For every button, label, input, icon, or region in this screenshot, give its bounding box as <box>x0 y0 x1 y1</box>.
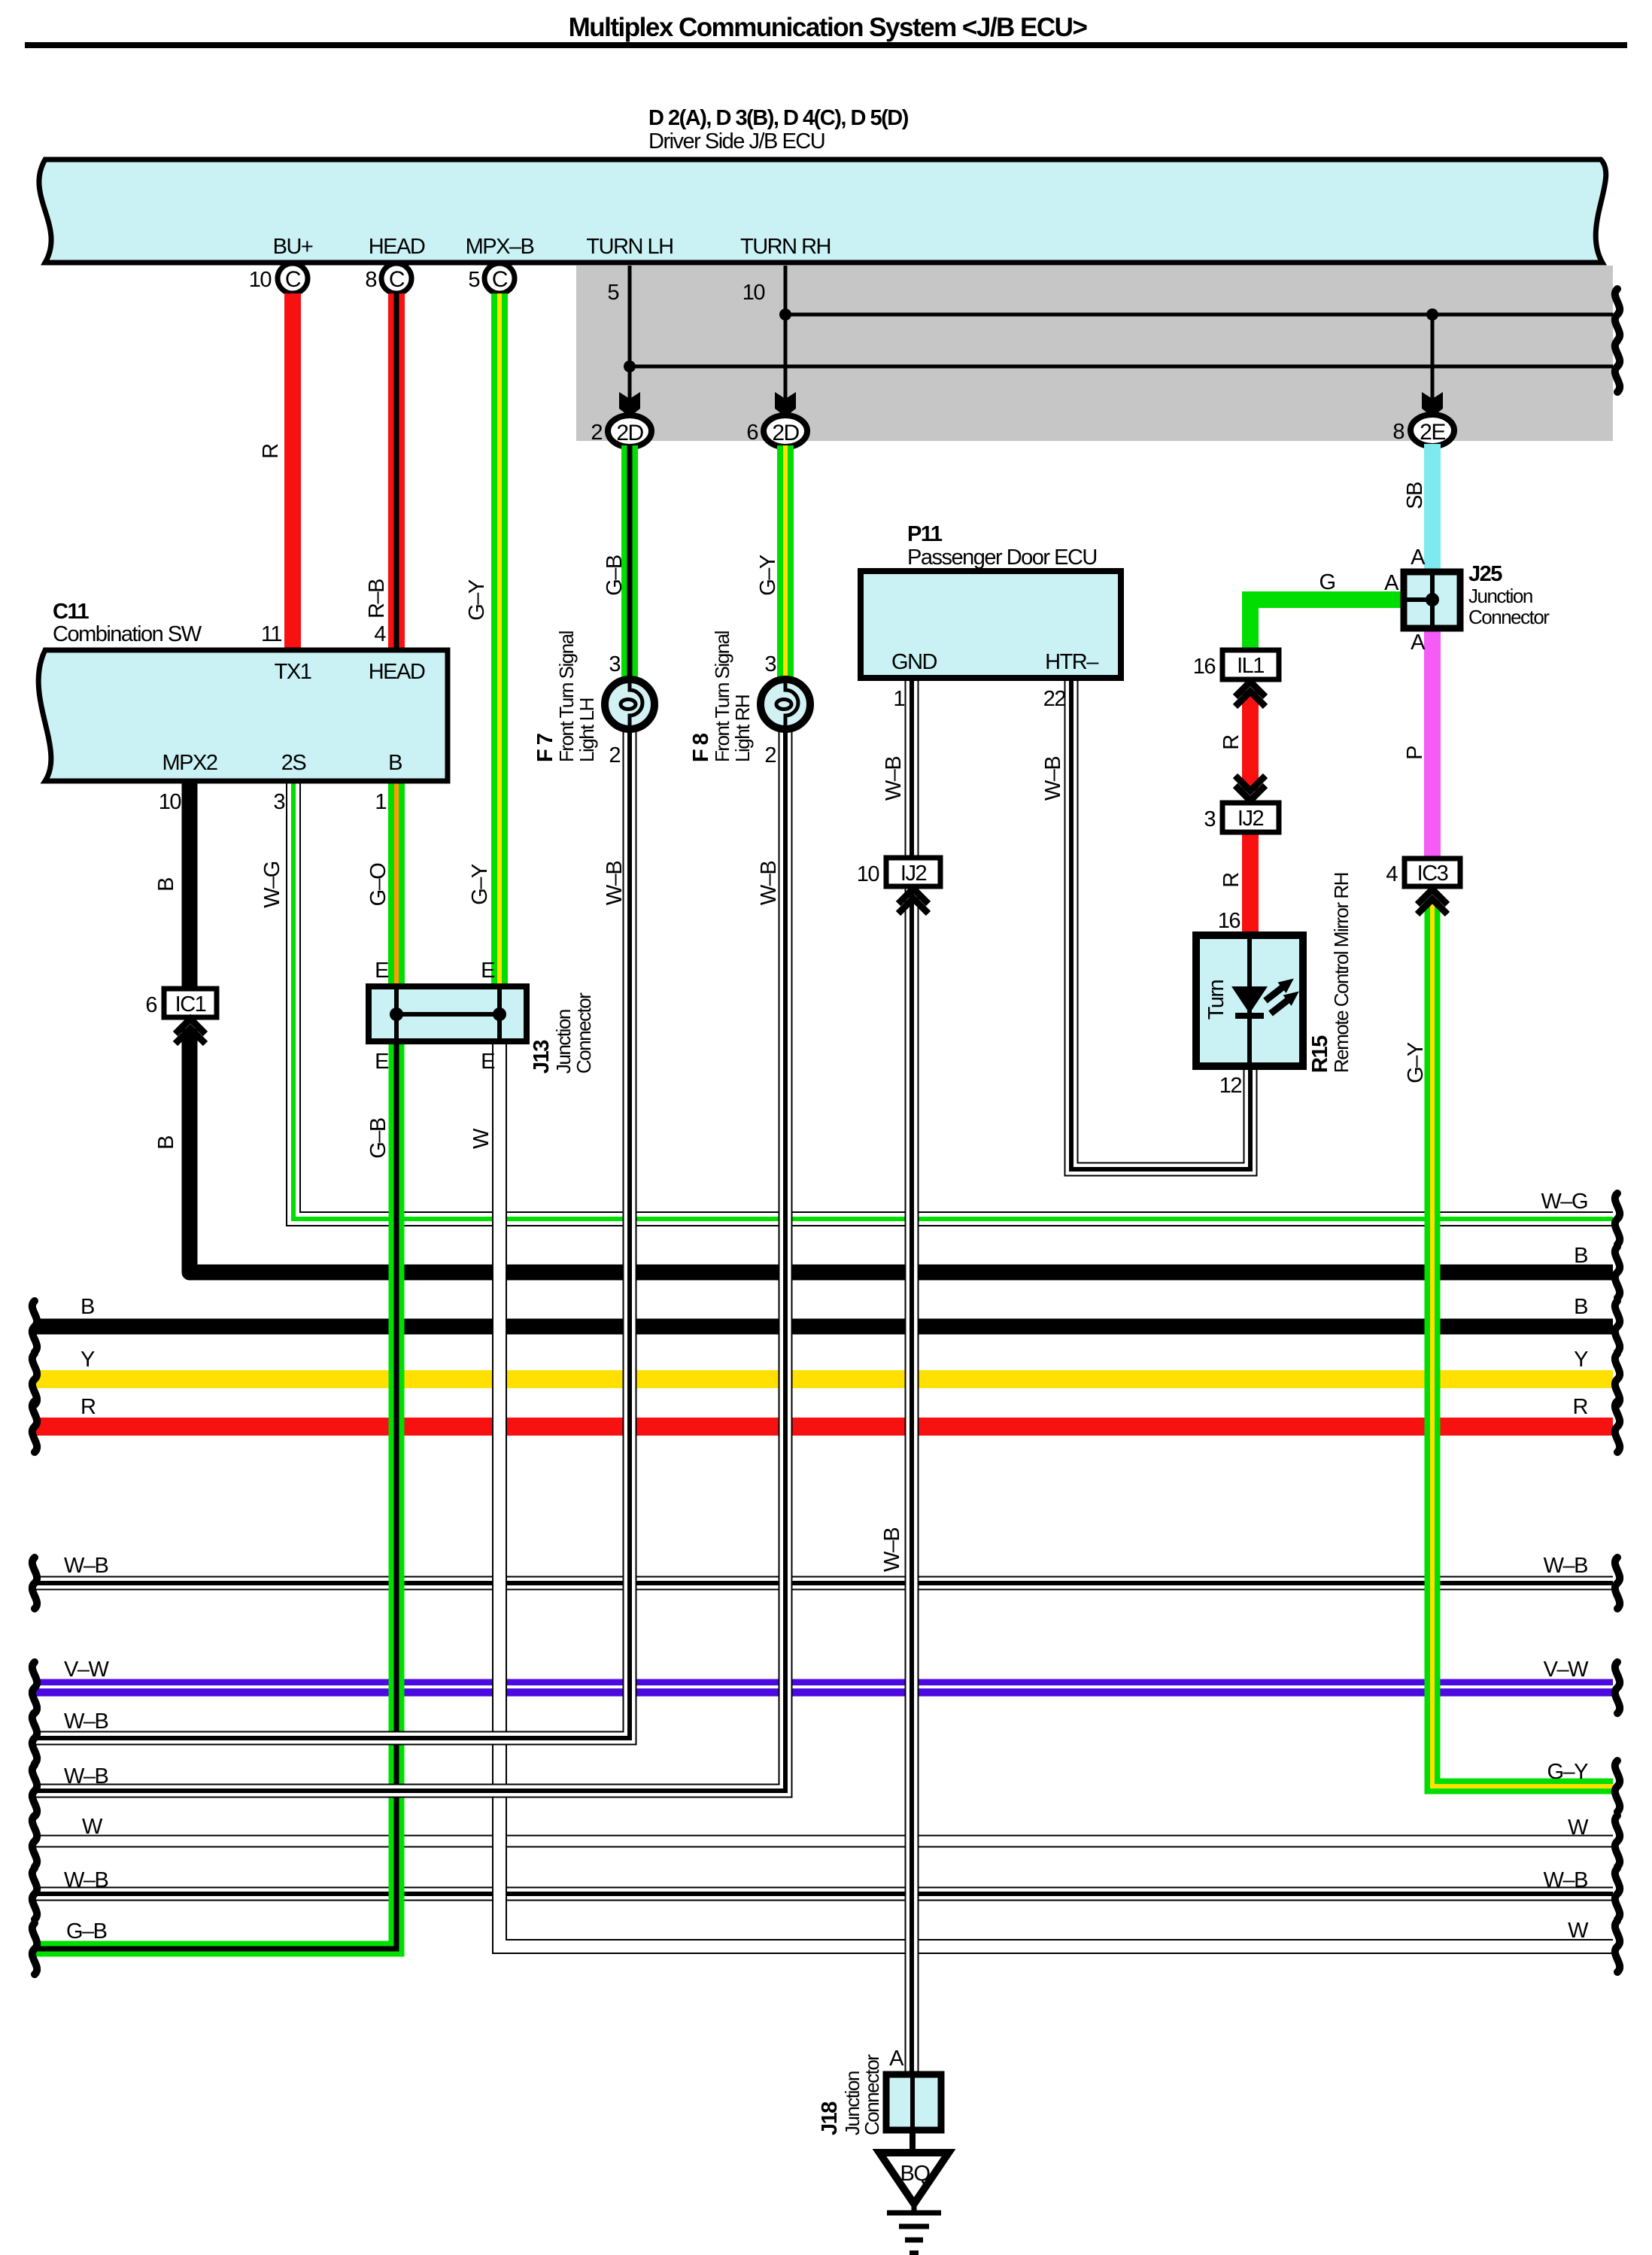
label F 8 Front Turn Signal Light RH <box>689 631 754 762</box>
bus W-B 4 full width <box>35 1887 1613 1901</box>
svg-text:4: 4 <box>374 622 386 646</box>
svg-text:SB: SB <box>1403 482 1427 509</box>
chevrons below IL1 <box>1235 682 1265 707</box>
svg-text:4: 4 <box>1386 862 1398 886</box>
svg-text:F 7: F 7 <box>533 734 557 762</box>
junction connector J18 <box>886 2074 941 2130</box>
svg-text:F 8: F 8 <box>689 733 713 762</box>
svg-text:R–B: R–B <box>365 579 389 618</box>
svg-text:W: W <box>82 1815 103 1839</box>
label R15 Remote Control Mirror RH <box>1308 873 1353 1073</box>
wire R-B from HEAD to C11 HEAD <box>388 293 405 650</box>
svg-text:A: A <box>1411 546 1426 570</box>
svg-text:10: 10 <box>857 862 879 886</box>
svg-text:W: W <box>469 1128 493 1149</box>
svg-text:Connector: Connector <box>572 992 595 1074</box>
svg-text:R: R <box>1219 735 1244 750</box>
break right Y <box>1615 1354 1620 1405</box>
connector IC1 pin 6 <box>145 989 217 1017</box>
wire drop to 2E <box>1431 315 1435 415</box>
svg-text:B: B <box>154 1136 178 1150</box>
junction dot TURN LH <box>624 360 636 372</box>
svg-text:R: R <box>259 444 283 459</box>
LED turn indicator inside R15 <box>1231 973 1303 1019</box>
break right W-B4 <box>1615 1868 1620 1919</box>
svg-text:C: C <box>492 267 508 292</box>
break left Y <box>32 1354 37 1405</box>
svg-text:W–G: W–G <box>260 862 284 908</box>
svg-text:8: 8 <box>365 268 376 292</box>
bulb F8 Front Turn Signal Light RH <box>761 679 810 729</box>
wire W-B from P11 GND to J18 <box>905 678 919 2074</box>
title: Multiplex Communication System <box>25 13 1627 48</box>
wire W from J13 to right edge <box>500 1041 1613 1947</box>
svg-text:W–B: W–B <box>1041 757 1065 801</box>
break right R <box>1615 1401 1620 1452</box>
svg-text:V–W: V–W <box>1544 1658 1589 1682</box>
wire G-O from C11 B to J13 <box>388 781 405 989</box>
break left R <box>32 1401 37 1452</box>
gray harness box <box>576 266 1613 441</box>
svg-text:G–O: G–O <box>366 863 390 907</box>
svg-text:W–B: W–B <box>757 862 781 906</box>
connector oval 2D pin 2 <box>591 415 651 447</box>
svg-text:B: B <box>388 751 402 775</box>
mirror R15 Remote Control Mirror RH <box>1196 935 1303 1066</box>
break left V-W <box>32 1662 37 1713</box>
bulb F7 Front Turn Signal Light LH <box>605 679 654 729</box>
wire W-B from P11 HTR- to R15 pin12 <box>1071 678 1250 1169</box>
svg-text:16: 16 <box>1218 909 1241 933</box>
arrow into 2E <box>1422 392 1443 417</box>
break right B2 <box>1615 1301 1620 1352</box>
svg-text:IC3: IC3 <box>1417 862 1448 886</box>
svg-text:3: 3 <box>273 790 284 814</box>
svg-text:1: 1 <box>893 687 904 711</box>
svg-text:B: B <box>1574 1295 1587 1319</box>
svg-text:3: 3 <box>609 652 620 676</box>
svg-text:W: W <box>1568 1816 1589 1840</box>
svg-text:G–B: G–B <box>366 1118 390 1159</box>
svg-text:Remote Control Mirror RH: Remote Control Mirror RH <box>1330 873 1353 1073</box>
break right W bus <box>1615 1816 1620 1867</box>
connector circle C pin 5 (MPX-B) <box>468 263 515 293</box>
svg-text:G: G <box>1319 570 1335 594</box>
pin E labels J13 <box>375 959 495 1074</box>
bus V-W full width <box>35 1687 1613 1688</box>
label D2(A) D3(B) D4(C) D5(D) Driver Side J/B ECU <box>648 106 909 153</box>
svg-text:6: 6 <box>145 993 156 1017</box>
svg-text:W–B: W–B <box>64 1709 108 1734</box>
break left W-B2 <box>32 1713 37 1764</box>
svg-text:E: E <box>481 1050 495 1074</box>
svg-text:Y: Y <box>1574 1348 1588 1372</box>
svg-text:3: 3 <box>1204 807 1215 831</box>
svg-text:IC1: IC1 <box>175 992 206 1017</box>
svg-text:Front Turn Signal: Front Turn Signal <box>711 631 733 762</box>
svg-text:C: C <box>389 267 405 292</box>
svg-text:E: E <box>481 959 495 983</box>
svg-text:22: 22 <box>1043 687 1066 711</box>
connector IL1 pin 16 <box>1193 650 1279 679</box>
connector IJ2 pin 3 <box>1204 803 1279 832</box>
break left W-B3 <box>32 1765 37 1816</box>
svg-text:P11: P11 <box>907 522 943 546</box>
svg-text:G–Y: G–Y <box>756 555 780 596</box>
svg-text:G–Y: G–Y <box>468 864 492 905</box>
svg-text:G–Y: G–Y <box>1404 1042 1428 1083</box>
svg-text:B: B <box>1574 1244 1587 1268</box>
svg-text:V–W: V–W <box>64 1658 109 1682</box>
svg-text:Junction: Junction <box>552 1010 575 1074</box>
svg-text:Driver Side J/B ECU: Driver Side J/B ECU <box>648 129 824 153</box>
svg-text:W–B: W–B <box>64 1868 108 1892</box>
svg-text:R: R <box>1573 1395 1588 1419</box>
svg-text:J13: J13 <box>530 1040 554 1074</box>
wire G-Y from MPX-B to J13 <box>491 293 508 989</box>
svg-text:MPX–B: MPX–B <box>466 235 534 259</box>
junction dot at 2E drop <box>1426 308 1438 321</box>
svg-text:G–Y: G–Y <box>1547 1760 1588 1784</box>
wire R IL1 to IJ2 <box>1242 691 1259 791</box>
svg-text:IJ2: IJ2 <box>1237 807 1264 831</box>
svg-text:2: 2 <box>764 743 776 767</box>
connector oval 2E pin 8 <box>1392 415 1454 446</box>
wire G from J25 to IL1 <box>1250 600 1404 652</box>
wire P from J25 to IC3 <box>1424 627 1441 860</box>
svg-text:2D: 2D <box>772 421 799 445</box>
svg-text:Front Turn Signal: Front Turn Signal <box>555 631 578 762</box>
connector circle C pin 10 (BU+) <box>249 263 308 293</box>
svg-text:W–B: W–B <box>603 862 627 906</box>
svg-text:G–B: G–B <box>603 555 627 596</box>
wire G-B from J13 to left edge <box>35 1041 396 1949</box>
svg-text:TURN RH: TURN RH <box>740 235 831 259</box>
svg-text:W–B: W–B <box>64 1554 108 1578</box>
label J18 Junction Connector <box>818 2054 883 2135</box>
chevrons below IJ2 <box>898 889 928 913</box>
svg-text:2E: 2E <box>1420 420 1445 445</box>
svg-text:3: 3 <box>764 652 776 676</box>
wire TURN RH (thin black) <box>785 266 1613 415</box>
chevrons above IJ2 right <box>1235 776 1265 801</box>
label F 7 Front Turn Signal Light LH <box>533 631 598 762</box>
svg-text:TURN LH: TURN LH <box>586 235 673 259</box>
svg-text:5: 5 <box>607 281 618 305</box>
svg-text:TX1: TX1 <box>275 660 311 684</box>
svg-text:G–Y: G–Y <box>465 579 489 621</box>
svg-text:D 2(A), D 3(B), D 4(C), D 5(D): D 2(A), D 3(B), D 4(C), D 5(D) <box>648 106 909 130</box>
svg-text:BU+: BU+ <box>273 235 313 259</box>
bus B from IC1 <box>190 1029 1613 1272</box>
break left W-B1 <box>32 1558 37 1609</box>
svg-text:Light RH: Light RH <box>731 695 754 762</box>
wire R IJ2 to R15 pin16 <box>1242 832 1259 938</box>
svg-text:BQ: BQ <box>900 2162 931 2186</box>
svg-text:11: 11 <box>261 622 281 646</box>
connector IC3 pin 4 <box>1386 859 1460 886</box>
connector IJ2 pin 10 <box>857 858 940 886</box>
ECU P11 Passenger Door ECU <box>861 522 1121 678</box>
wire W-B from F8 bulb to left edge <box>35 728 785 1791</box>
svg-text:2D: 2D <box>616 421 643 445</box>
svg-text:W: W <box>1568 1919 1589 1943</box>
svg-text:Turn: Turn <box>1204 980 1228 1020</box>
break right harness line 1 <box>1615 289 1620 340</box>
junction connector J25 <box>1404 572 1460 628</box>
svg-text:IJ2: IJ2 <box>900 862 927 886</box>
svg-text:B: B <box>154 878 178 892</box>
svg-text:G–B: G–B <box>66 1919 107 1943</box>
break right harness line 2 <box>1615 341 1620 392</box>
wire G-Y from 2D to F8 bulb <box>777 445 794 681</box>
bus W-G (white/green) to right edge <box>293 781 1613 1219</box>
wire G-Y from IC3 to right edge <box>1432 900 1613 1786</box>
svg-text:A: A <box>889 2047 904 2071</box>
svg-text:2: 2 <box>591 421 602 445</box>
break left G-B <box>32 1923 37 1974</box>
break right W-B1 <box>1615 1558 1620 1609</box>
svg-text:Junction: Junction <box>1468 585 1532 607</box>
arrow into 2D RH <box>775 392 796 417</box>
svg-text:10: 10 <box>742 281 765 305</box>
svg-text:GND: GND <box>891 650 937 674</box>
chevrons below IC3 <box>1417 889 1447 914</box>
break left B2 <box>32 1301 37 1352</box>
wire G-B from 2D to F7 bulb <box>621 445 638 681</box>
svg-text:A: A <box>1384 571 1399 595</box>
svg-text:HEAD: HEAD <box>369 235 425 259</box>
break right W wire <box>1615 1921 1620 1972</box>
svg-text:6: 6 <box>746 421 758 445</box>
svg-text:Y: Y <box>80 1348 95 1372</box>
svg-text:10: 10 <box>249 268 272 292</box>
svg-text:C: C <box>285 267 301 292</box>
label J13 Junction Connector <box>530 992 595 1074</box>
svg-text:E: E <box>375 959 389 983</box>
svg-text:5: 5 <box>468 268 479 292</box>
wire B from C11 MPX2 to IC1 <box>182 781 198 990</box>
svg-text:Combination SW: Combination SW <box>53 622 202 646</box>
wire TURN LH (thin black) <box>630 266 1613 415</box>
wire W-B from F7 bulb to left edge <box>35 728 630 1738</box>
ECU block Driver Side J/B ECU (cyan band) <box>39 160 1606 263</box>
svg-text:R15: R15 <box>1308 1035 1332 1073</box>
svg-text:Light LH: Light LH <box>575 698 598 762</box>
bus B full width <box>35 1319 1613 1335</box>
break right G-Y <box>1615 1761 1620 1812</box>
svg-text:W–B: W–B <box>64 1764 108 1789</box>
label J25 Junction Connector <box>1468 562 1550 628</box>
C11 Combination SW box <box>38 600 448 781</box>
break right W-G <box>1615 1193 1620 1245</box>
chevrons below IC1 <box>175 1019 205 1044</box>
svg-text:E: E <box>375 1050 389 1074</box>
break right B1 <box>1615 1247 1620 1298</box>
svg-text:W–B: W–B <box>882 757 906 801</box>
svg-text:R: R <box>1219 873 1244 888</box>
svg-text:Connector: Connector <box>861 2054 883 2135</box>
svg-text:HTR–: HTR– <box>1045 650 1099 674</box>
arrow into 2D LH <box>619 392 640 417</box>
break right V-W <box>1615 1662 1620 1713</box>
junction connector J13 <box>369 986 527 1041</box>
svg-text:2S: 2S <box>281 751 307 775</box>
wire R from BU+ to C11 TX1 <box>284 293 301 650</box>
svg-text:W–B: W–B <box>880 1528 904 1573</box>
connector oval 2D pin 6 <box>746 415 807 447</box>
svg-text:1: 1 <box>375 790 386 814</box>
svg-text:W–G: W–G <box>1541 1190 1587 1214</box>
svg-text:W–B: W–B <box>1544 1868 1588 1892</box>
svg-text:B: B <box>80 1295 94 1319</box>
break left W-B4 <box>32 1868 37 1919</box>
break left W bus <box>32 1816 37 1867</box>
ground BQ <box>879 2130 949 2253</box>
svg-text:Connector: Connector <box>1468 606 1550 628</box>
svg-text:Multiplex Communication System: Multiplex Communication System <J/B ECU> <box>569 13 1088 42</box>
junction dot TURN RH <box>779 308 791 321</box>
bus Y full width <box>35 1370 1613 1388</box>
svg-text:W–B: W–B <box>1544 1554 1588 1578</box>
svg-text:J18: J18 <box>818 2102 842 2135</box>
svg-text:HEAD: HEAD <box>369 660 425 684</box>
svg-text:16: 16 <box>1193 655 1216 679</box>
wire SB from 2E to J25 <box>1424 444 1441 573</box>
svg-text:10: 10 <box>159 790 181 814</box>
svg-text:J25: J25 <box>1468 562 1502 586</box>
svg-text:Passenger Door ECU: Passenger Door ECU <box>907 546 1097 570</box>
connector circle C pin 8 (HEAD) <box>365 263 411 293</box>
svg-text:IL1: IL1 <box>1237 654 1264 678</box>
svg-text:8: 8 <box>1392 420 1404 444</box>
svg-text:C11: C11 <box>53 600 89 624</box>
bus R full width <box>35 1418 1613 1436</box>
svg-text:12: 12 <box>1219 1074 1242 1098</box>
svg-text:2: 2 <box>609 743 620 767</box>
svg-text:A: A <box>1411 631 1426 655</box>
svg-text:P: P <box>1403 746 1427 760</box>
bus W full width <box>35 1835 1613 1848</box>
svg-text:MPX2: MPX2 <box>162 751 217 775</box>
svg-text:R: R <box>80 1395 96 1419</box>
bus W-B 1 full width <box>35 1576 1613 1591</box>
